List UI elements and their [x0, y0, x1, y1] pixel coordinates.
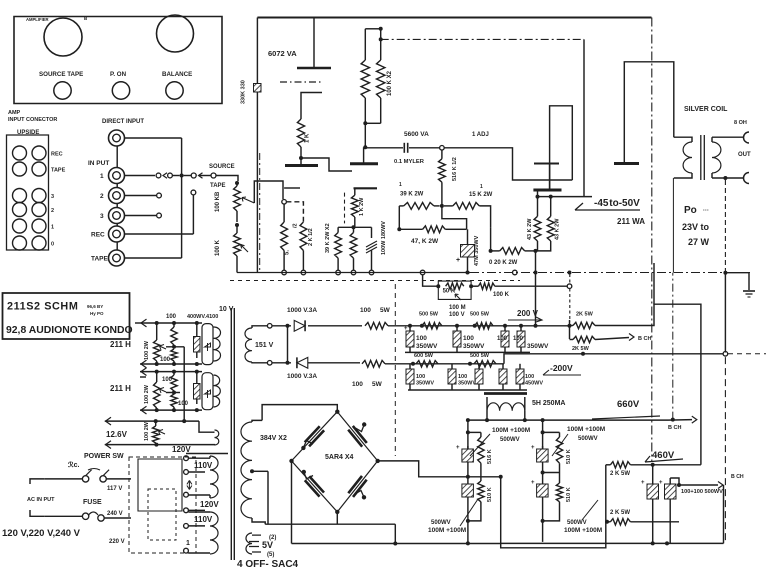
centre tap wire	[267, 471, 269, 524]
svg-text:100: 100	[416, 374, 425, 380]
junction plate top	[379, 27, 383, 31]
svg-text:100: 100	[458, 374, 467, 380]
grid stopper on left vertical	[254, 84, 262, 93]
svg-text:1: 1	[480, 184, 483, 190]
svg-text:47M 350WV: 47M 350WV	[474, 235, 480, 266]
junction 43K tops	[536, 195, 540, 199]
svg-text:2 K 5W: 2 K 5W	[610, 510, 630, 516]
bottom bus left part	[292, 543, 501, 545]
primary tap stubs	[188, 471, 205, 473]
svg-text:100M +100M: 100M +100M	[492, 427, 530, 434]
svg-text:100 M: 100 M	[449, 305, 466, 311]
svg-text:211 WA: 211 WA	[617, 217, 645, 226]
choke 5H 250MA	[484, 392, 527, 395]
svg-text:43 K 2W: 43 K 2W	[555, 218, 561, 240]
row1 bottom rail	[140, 363, 202, 365]
contact jack3	[157, 213, 162, 218]
wire jack2 stub	[124, 195, 156, 197]
wiper to grid wire	[254, 181, 283, 203]
460V loop feed	[501, 477, 606, 548]
svg-text:5.: 5.	[285, 250, 291, 255]
bottom bus right up	[723, 485, 725, 543]
volume pot 100KB	[235, 181, 239, 185]
bus circle 2K	[301, 270, 306, 275]
svg-text:+: +	[659, 480, 663, 486]
svg-text:TAPE: TAPE	[51, 168, 66, 174]
svg-text:500 5W: 500 5W	[470, 312, 490, 318]
updown arrow	[187, 480, 192, 489]
driver vertical x535 down	[535, 251, 537, 326]
selector contact c	[191, 173, 196, 178]
svg-text:100: 100	[513, 336, 524, 342]
50K pot	[446, 283, 464, 289]
front panel outline	[14, 17, 222, 104]
svg-text:100M +100M: 100M +100M	[428, 527, 466, 534]
row2 top rail	[140, 371, 202, 373]
svg-text:0 20 K 2W: 0 20 K 2W	[489, 260, 518, 266]
wire 2K bottom arrow B CH	[595, 338, 629, 340]
svg-text:510 K: 510 K	[487, 487, 493, 502]
psu channel dashed vertical	[394, 284, 396, 456]
svg-text:350WV: 350WV	[416, 343, 438, 350]
svg-text:1000 V.3A: 1000 V.3A	[287, 307, 317, 314]
svg-text:(5): (5)	[267, 552, 274, 558]
RCA jack 3	[109, 208, 125, 224]
resistor 100K	[471, 285, 478, 287]
svg-text:211S2 SCHM: 211S2 SCHM	[7, 301, 78, 313]
driver grid vertical	[583, 39, 585, 196]
filter cell 2	[542, 420, 544, 542]
svg-text:INPUT CONECTOR: INPUT CONECTOR	[8, 117, 57, 123]
bridge corner dots	[335, 410, 339, 414]
wire 39K left end down	[398, 206, 400, 229]
wire selector to volume pot	[216, 176, 238, 182]
primary winding bumps lower	[210, 512, 218, 554]
svg-text:SOURCE TAPE: SOURCE TAPE	[39, 71, 83, 78]
lower caps bottom rail	[408, 389, 527, 391]
svg-text:2: 2	[51, 208, 54, 214]
filter cell 2 lower	[541, 471, 545, 475]
psu resistor 100 5W bottom	[362, 360, 385, 367]
resistor 5K 1/2	[283, 204, 285, 222]
filament ecap 2	[194, 384, 201, 400]
svg-text:-200V: -200V	[550, 363, 573, 373]
svg-text:47, K 2W: 47, K 2W	[411, 238, 439, 245]
wire 2K top to 460V drop	[595, 304, 701, 465]
-200V rail wire	[504, 354, 723, 364]
2K 5W pair to B ch	[568, 324, 572, 328]
volume pot wiper	[242, 197, 254, 203]
panel switch SOURCE/TAPE	[54, 82, 71, 99]
svg-text:5600 VA: 5600 VA	[404, 131, 429, 138]
hum pot row2	[156, 372, 158, 382]
RCA jack 1	[109, 168, 125, 184]
svg-text:···: ···	[703, 208, 709, 214]
filament winding 1	[214, 327, 221, 361]
svg-text:B CH: B CH	[731, 474, 744, 480]
resistor 2K 1/2	[286, 202, 303, 222]
plate resistor bottoms	[364, 98, 366, 123]
stage2 cathode bar	[354, 187, 378, 189]
svg-text:100: 100	[352, 381, 363, 388]
junction 39K/15K	[440, 204, 444, 208]
svg-text:B CH: B CH	[638, 336, 651, 342]
svg-text:+: +	[456, 445, 460, 451]
choke leads	[486, 411, 488, 420]
panel knob right	[157, 15, 194, 52]
svg-text:211 H: 211 H	[110, 340, 131, 349]
hum pot row1	[156, 323, 158, 340]
tube1 plate lead	[313, 18, 315, 69]
svg-text:100: 100	[416, 335, 427, 342]
5AR4 filament hooks	[303, 441, 313, 448]
bus circle 39K b	[351, 270, 356, 275]
top B+ bus	[257, 17, 651, 19]
svg-text:100M +100M: 100M +100M	[564, 527, 602, 534]
right vertical dashed lower	[724, 357, 726, 543]
cap 100 350WV a	[408, 324, 412, 328]
output transformer secondary	[711, 137, 713, 142]
resistors 39K 2W X2	[338, 226, 371, 228]
balance pot 100K	[236, 225, 238, 233]
wire tape jack to bus	[124, 257, 182, 259]
resistor 2K 5W upper right	[606, 464, 611, 466]
svg-text:110V: 110V	[194, 515, 213, 524]
svg-text:1 K 2W: 1 K 2W	[359, 197, 365, 216]
svg-text:IN PUT: IN PUT	[88, 160, 109, 167]
junction secondary bottom	[723, 176, 727, 180]
junction 200V	[534, 324, 538, 328]
svg-text:POWER SW: POWER SW	[84, 453, 124, 460]
svg-text:-45 to-50V: -45 to-50V	[594, 198, 640, 209]
electrolytic 47M 350WV	[461, 245, 475, 258]
svg-text:5H 250MA: 5H 250MA	[532, 400, 565, 407]
svg-text:1: 1	[51, 225, 54, 231]
ground right of bus	[725, 273, 749, 290]
bus circle bypass	[369, 270, 374, 275]
svg-text:100 2W: 100 2W	[144, 340, 150, 360]
ground bus dash-dot right	[470, 272, 750, 274]
stage2 grid dash	[344, 193, 346, 224]
svg-text:(2): (2)	[269, 535, 276, 541]
svg-text:/2: /2	[293, 223, 299, 228]
row1 divider resistors 100/100	[173, 323, 175, 327]
RCA jack DIRECT	[109, 130, 125, 146]
caps 100 100 350WV	[503, 324, 507, 328]
resistor 20K 2W	[491, 250, 500, 252]
svg-text:SOURCE: SOURCE	[209, 164, 235, 170]
resistor 15K 2W horizontal	[444, 205, 453, 207]
bus circle 39K a	[336, 270, 341, 275]
svg-text:100+100 500WV: 100+100 500WV	[681, 489, 723, 495]
svg-text:6072 VA: 6072 VA	[268, 49, 297, 58]
svg-text:DIRECT INPUT: DIRECT INPUT	[102, 119, 144, 125]
svg-text:+: +	[531, 480, 535, 486]
svg-text:600 5W: 600 5W	[414, 353, 434, 359]
svg-text:2K 5W: 2K 5W	[572, 346, 590, 352]
svg-text:REC: REC	[91, 232, 105, 239]
primary winding bumps upper	[210, 456, 218, 498]
psu diode bottom	[297, 357, 308, 368]
svg-text:1: 1	[186, 540, 190, 547]
svg-text:120V: 120V	[172, 445, 191, 454]
channel divider dashed	[230, 280, 520, 282]
RCA jack TAPE	[109, 250, 125, 266]
bridge diamond	[292, 412, 378, 512]
svg-text:100 2W: 100 2W	[144, 384, 150, 404]
resistor 2K 5W lower right	[605, 520, 609, 524]
top rail caps chain	[407, 325, 570, 327]
grid leak 516K 1/2	[441, 150, 443, 159]
dash-dot line first plate to driver	[381, 38, 584, 40]
cap 100 350WV b	[455, 324, 459, 328]
junction bus right	[723, 271, 727, 275]
svg-text:200 V: 200 V	[517, 309, 539, 318]
svg-text:AC IN PUT: AC IN PUT	[27, 497, 55, 503]
svg-text:SILVER COIL: SILVER COIL	[684, 106, 728, 113]
bus circle at x370	[513, 270, 518, 275]
stage2 cathode resistor	[354, 188, 356, 195]
connector jack pair row 3	[13, 189, 27, 203]
connector jack pair row REC	[13, 146, 27, 160]
row1 centre tap wire	[166, 346, 184, 348]
svg-text:B CH: B CH	[668, 425, 681, 431]
switch to primary box	[106, 478, 131, 480]
svg-text:100: 100	[162, 377, 173, 383]
svg-text:39 K 2W: 39 K 2W	[400, 192, 424, 198]
bridge bottom wires	[265, 523, 395, 525]
svg-text:5W: 5W	[372, 381, 383, 388]
AC input bracket	[30, 479, 45, 484]
svg-text:100: 100	[497, 336, 508, 342]
svg-text:240 V: 240 V	[107, 511, 123, 517]
svg-text:100: 100	[166, 314, 177, 320]
svg-text:350WV: 350WV	[458, 381, 476, 387]
primary select dashed box	[129, 457, 196, 553]
211 grid wire	[551, 196, 592, 198]
svg-text:510 K: 510 K	[566, 449, 572, 464]
12.6V lower row	[105, 444, 140, 446]
5V winding	[246, 533, 252, 554]
12.6V row	[105, 420, 199, 422]
circle 100K end	[567, 284, 572, 289]
AC wire to fuse	[45, 515, 83, 517]
row2 bottom rail	[140, 409, 202, 411]
svg-text:500WV: 500WV	[567, 520, 587, 526]
211 plate bar	[614, 162, 639, 165]
junction cathode	[299, 156, 303, 160]
junction pots	[235, 223, 239, 227]
12.6V winding	[215, 430, 219, 445]
wire cathode to right	[301, 158, 352, 171]
svg-text:350WV: 350WV	[463, 343, 485, 350]
cap bottoms rail	[405, 351, 530, 353]
selector arrow a	[163, 173, 167, 179]
title box	[3, 293, 130, 339]
svg-text:500WV: 500WV	[431, 520, 451, 526]
wire vertical input bus	[181, 138, 183, 258]
svg-text:8 OH: 8 OH	[734, 120, 747, 126]
lower dropper chain 600 5W	[407, 363, 504, 365]
jack ground chain	[116, 146, 118, 250]
svg-text:2 K 1/2: 2 K 1/2	[308, 228, 314, 246]
svg-text:AMP: AMP	[8, 110, 21, 116]
50K adj box	[438, 281, 471, 299]
row2 divider resistors	[173, 372, 175, 375]
svg-text:500WV: 500WV	[578, 436, 598, 442]
svg-text:P. ON: P. ON	[110, 71, 127, 78]
tube1 cathode	[301, 93, 322, 120]
ground bus	[237, 272, 470, 274]
wire down to 50K box	[420, 270, 425, 275]
svg-text:3: 3	[100, 213, 104, 220]
wire circle feed	[569, 274, 571, 284]
svg-text:REC: REC	[51, 152, 63, 158]
svg-text:100 KB: 100 KB	[215, 191, 221, 212]
svg-text:27 W: 27 W	[688, 237, 710, 247]
svg-text:0: 0	[51, 242, 54, 248]
wire jack1 to selector	[124, 175, 155, 177]
svg-text:350WV: 350WV	[527, 343, 549, 350]
svg-text:+: +	[404, 326, 408, 332]
filter cell 1 lower	[466, 475, 470, 479]
svg-text:39 K 2W X2: 39 K 2W X2	[325, 223, 331, 253]
secondary HV winding 384V	[241, 422, 252, 518]
svg-text:5V: 5V	[262, 540, 273, 550]
svg-text:330K 330: 330K 330	[241, 80, 247, 104]
cathode bypass hatch cap	[366, 241, 377, 253]
output jack hot	[744, 132, 750, 143]
output transformer primary	[674, 137, 692, 142]
svg-text:2K 5W: 2K 5W	[576, 312, 594, 318]
svg-text:120 V,220 V,240 V: 120 V,220 V,240 V	[2, 528, 81, 539]
svg-text:660V: 660V	[617, 399, 640, 410]
left join 2K pair	[605, 465, 607, 522]
selector contact a	[156, 173, 161, 178]
panel switch P.ON	[112, 82, 129, 99]
output jack cold	[743, 173, 749, 184]
svg-text:43 K 2W: 43 K 2W	[527, 218, 533, 240]
filter cell 1	[467, 420, 469, 543]
wire rec jack	[124, 233, 193, 235]
svg-text:500WV: 500WV	[500, 437, 520, 443]
-200V vertical from bus	[724, 273, 726, 353]
svg-text:5AR4 X4: 5AR4 X4	[325, 454, 354, 461]
svg-text:384V X2: 384V X2	[260, 435, 287, 442]
svg-text:TAPE: TAPE	[91, 256, 109, 263]
transformer core	[230, 308, 232, 560]
hum pot 12.6V	[155, 421, 157, 426]
resistor 47K 2W	[399, 228, 422, 230]
psu resistor 100 5W top	[365, 322, 388, 329]
211 plate lead to transformer	[624, 62, 674, 164]
grid node circle	[282, 200, 287, 205]
svg-text:ℛc.: ℛc.	[68, 461, 79, 469]
svg-text:100: 100	[360, 307, 371, 314]
contact jack2	[157, 193, 162, 198]
svg-text:Po: Po	[684, 205, 697, 216]
bottom ground bus	[501, 542, 724, 544]
svg-text:4 OFF- SAC4: 4 OFF- SAC4	[237, 559, 299, 570]
lower caps row	[406, 369, 414, 384]
junction input bus	[180, 174, 184, 178]
svg-text:1 ADJ: 1 ADJ	[472, 132, 489, 138]
bridge right lead	[378, 461, 501, 477]
svg-text:100 2W: 100 2W	[144, 421, 150, 441]
cathode resistor 1K	[297, 119, 304, 147]
power switch	[82, 476, 88, 482]
winding 151V	[245, 328, 252, 362]
selector contact b	[168, 173, 173, 178]
svg-text:100: 100	[160, 357, 171, 363]
connector jack pair row 1	[13, 219, 27, 233]
bias resistors 43K 2W x2	[537, 197, 539, 217]
460V output arrow	[677, 483, 681, 487]
svg-text:92,8 AUDIONOTE KONDO: 92,8 AUDIONOTE KONDO	[6, 325, 133, 336]
circle coupling out	[440, 146, 445, 151]
svg-text:500 5W: 500 5W	[470, 353, 490, 359]
selector arrow b	[199, 173, 203, 179]
panel knob left	[44, 18, 82, 56]
primary return wire	[672, 178, 674, 273]
660V arrow	[671, 418, 675, 422]
svg-text:15 K 2W: 15 K 2W	[469, 192, 493, 198]
left vertical supply wire	[256, 18, 258, 273]
svg-text:1: 1	[399, 182, 402, 188]
svg-text:100: 100	[525, 374, 534, 380]
HV center tap	[252, 470, 268, 472]
fuse symbol	[82, 513, 88, 519]
bridge left lead	[291, 461, 293, 544]
coupling wire to cap	[365, 147, 403, 149]
svg-text:+: +	[456, 257, 460, 264]
grid bracket	[284, 187, 300, 189]
fuse to box wire	[104, 517, 131, 519]
RCA jack REC	[109, 226, 125, 242]
wire rec vertical	[192, 195, 194, 234]
plate resistors 100K X2	[364, 29, 366, 60]
wire direct input to bus	[124, 137, 182, 139]
output transformer core	[700, 135, 702, 180]
svg-text:100 V: 100 V	[449, 312, 465, 318]
balance pot wiper	[241, 245, 249, 253]
5V bracket	[249, 535, 261, 552]
svg-text:10 V: 10 V	[219, 306, 234, 313]
wire 47K to ecap	[460, 228, 467, 230]
contact rec	[191, 190, 196, 195]
svg-text:1 K: 1 K	[305, 133, 311, 143]
svg-text:1: 1	[100, 173, 104, 180]
svg-text:12.6V: 12.6V	[106, 430, 128, 439]
svg-text:400WV.4100: 400WV.4100	[187, 314, 218, 320]
svg-text:117 V: 117 V	[107, 486, 122, 492]
resistor 39K 2W horizontal	[399, 205, 403, 207]
wire title area 211H rails	[135, 322, 140, 324]
input connector box	[7, 135, 49, 250]
transformer primary feed up	[672, 273, 674, 420]
B+ 660V rail	[468, 419, 668, 421]
secondary ground wire	[724, 180, 726, 273]
svg-text:50 K: 50 K	[443, 289, 456, 295]
connector jack pair row 2	[13, 203, 27, 217]
svg-text:110V: 110V	[194, 461, 213, 470]
svg-text:23V to: 23V to	[682, 222, 710, 232]
secondary top lead	[712, 136, 744, 138]
connector jack pair row 0	[13, 236, 27, 250]
svg-text:211 H: 211 H	[110, 384, 131, 393]
svg-text:+: +	[531, 445, 535, 451]
channel divider dash vertical left	[259, 153, 261, 273]
